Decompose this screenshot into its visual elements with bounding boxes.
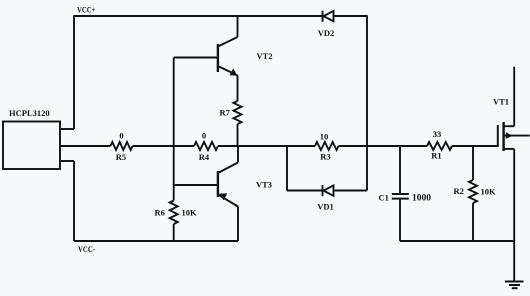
wire base bus vertical (VT2 base to VT3 base): [173, 58, 175, 186]
capacitor C1: [392, 146, 409, 241]
resistor R6: [170, 185, 178, 241]
wire R7 to main wire: [237, 124, 239, 146]
wire right vertical from top rail down to VD1 branch: [366, 15, 368, 190]
wire pin 3 of HCPL3120: [60, 160, 74, 162]
wire vertical pin 3 down to VCC- rail: [73, 161, 75, 241]
resistor R5: [111, 142, 133, 150]
svg-text:33: 33: [433, 129, 442, 139]
resistor R1: [427, 142, 452, 150]
svg-text:C1: C1: [379, 193, 389, 203]
transistor VT3 base wire: [174, 184, 218, 186]
svg-text:R3: R3: [320, 152, 330, 162]
svg-text:0: 0: [202, 131, 206, 141]
svg-text:VCC+: VCC+: [77, 5, 96, 15]
diode VD2: [323, 11, 368, 22]
wire VD1 branch left: [287, 190, 323, 192]
diode VD1: [323, 185, 368, 196]
wire VCC+ rail top left segment: [74, 15, 322, 17]
svg-text:VD2: VD2: [318, 28, 335, 38]
wire R3 to C1 junction and R1: [339, 145, 428, 147]
svg-text:0: 0: [119, 131, 123, 141]
svg-text:R7: R7: [220, 108, 231, 118]
svg-text:VT2: VT2: [257, 51, 273, 61]
svg-text:10K: 10K: [481, 187, 497, 197]
svg-text:1000: 1000: [412, 193, 432, 203]
wire R5 to R4: [133, 145, 195, 147]
svg-text:R5: R5: [116, 152, 126, 162]
svg-text:R1: R1: [431, 151, 441, 161]
svg-text:R4: R4: [199, 152, 210, 162]
wire R4 to R3: [218, 145, 315, 147]
transistor VT2: [218, 15, 238, 101]
op-amp U1 HCPL3120 box: [3, 122, 60, 170]
svg-text:VD1: VD1: [317, 202, 334, 212]
wire R1 to gate of VT1: [452, 145, 498, 147]
wire vertical from VCC+ corner down to pin 1: [73, 15, 75, 129]
wire ground rail bottom right: [400, 240, 514, 242]
svg-text:10: 10: [320, 132, 329, 142]
svg-text:VCC-: VCC-: [78, 244, 95, 254]
wire pin 2 of HCPL3120 to R5: [60, 145, 111, 147]
svg-text:R2: R2: [454, 186, 464, 196]
wire VCC- rail: [74, 240, 238, 242]
svg-text:10K: 10K: [182, 208, 198, 218]
svg-text:VT3: VT3: [256, 180, 272, 190]
resistor R3: [315, 142, 339, 150]
resistor R4: [194, 142, 218, 150]
node junction left of R3 and VD1 branch vertical: [286, 146, 288, 191]
svg-text:HCPL3120: HCPL3120: [9, 108, 50, 118]
svg-text:VT1: VT1: [493, 97, 509, 107]
resistor R7: [234, 101, 242, 124]
wire pin 1 of HCPL3120: [60, 128, 74, 130]
transistor Q VT2 base wire: [174, 57, 218, 59]
transistor VT3: [218, 146, 238, 241]
svg-text:R6: R6: [155, 208, 165, 218]
resistor R2: [469, 146, 477, 241]
ground: [505, 241, 524, 288]
transistor VT1 MOSFET: [498, 67, 530, 241]
